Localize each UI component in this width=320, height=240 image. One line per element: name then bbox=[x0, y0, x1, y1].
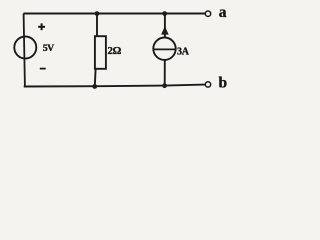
wire: current source bottom lead bbox=[164, 60, 166, 86]
svg-text:b: b bbox=[219, 74, 228, 91]
terminal b (open circle) bbox=[205, 82, 210, 87]
plus polarity mark of voltage source bbox=[38, 23, 45, 30]
current direction arrowhead (pointing up) bbox=[161, 26, 169, 34]
junction: bottom rail / resistor branch bbox=[92, 84, 97, 89]
wire: resistor top lead bbox=[96, 14, 98, 37]
resistor R1 box (2 ohm) bbox=[95, 36, 106, 69]
wire: bottom rail from left corner to terminal b bbox=[24, 85, 205, 87]
svg-text:3A: 3A bbox=[177, 47, 190, 58]
minus polarity mark of voltage source bbox=[40, 68, 46, 70]
wire: top rail from left corner to terminal a bbox=[24, 13, 206, 15]
current source I1 circle (3A) bbox=[153, 38, 175, 60]
voltage source V1 circle (5V) bbox=[14, 37, 36, 59]
wire: resistor bottom lead bbox=[94, 69, 97, 87]
svg-text:5V: 5V bbox=[43, 43, 54, 54]
svg-text:a: a bbox=[219, 4, 227, 21]
junction: bottom rail / current source branch bbox=[162, 83, 167, 88]
junction: top rail / resistor branch bbox=[95, 11, 100, 16]
svg-text:2Ω: 2Ω bbox=[108, 45, 122, 57]
current source bar: horizontal diameter line bbox=[153, 48, 175, 50]
wire: current source top lead bbox=[164, 14, 166, 38]
terminal a (open circle) bbox=[205, 11, 210, 16]
junction: top rail / current source branch bbox=[162, 11, 167, 16]
wire: left branch (through voltage source) bbox=[24, 14, 25, 87]
